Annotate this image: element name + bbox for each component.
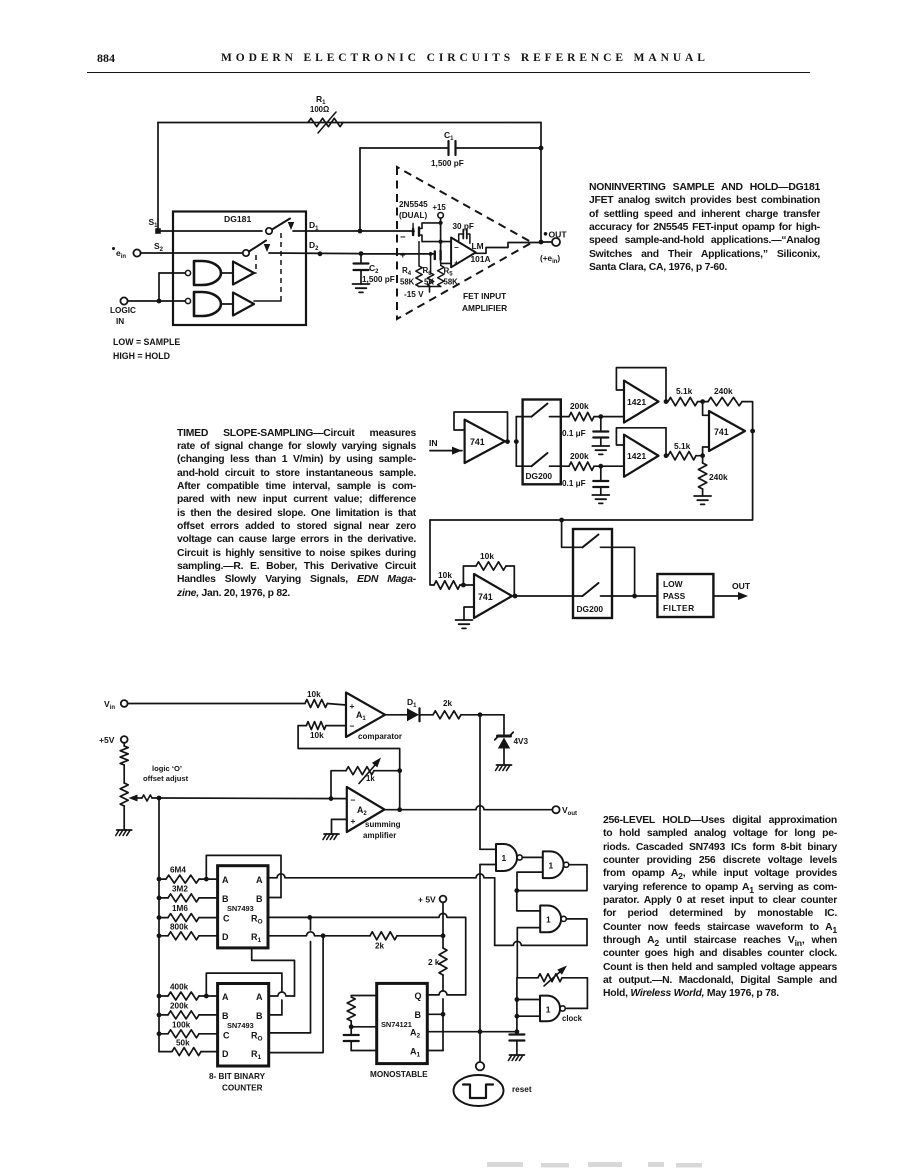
counter ladder rung 400k	[157, 994, 162, 999]
svg-text:PASS: PASS	[663, 591, 686, 601]
switch SW1 pivot	[266, 228, 272, 234]
op-amp 741 buffer U1	[465, 420, 505, 463]
svg-text:A: A	[256, 992, 263, 1002]
ground zener	[497, 764, 512, 766]
wire C1 left drop to D1	[359, 148, 361, 231]
ground A2 plus	[324, 833, 339, 835]
svg-text:1421: 1421	[627, 397, 646, 407]
transistor Q1 2N5545 top FET	[412, 231, 414, 233]
node U1 output dots	[505, 439, 510, 444]
ground osc	[509, 1054, 524, 1056]
pot wiper arrow	[129, 795, 138, 802]
svg-text:(+ein): (+ein)	[540, 254, 560, 265]
wire mono A2 line	[427, 1031, 517, 1033]
svg-text:LM: LM	[472, 241, 484, 251]
svg-text:DG181: DG181	[224, 214, 251, 224]
reset pulse symbol	[463, 1085, 493, 1099]
svg-text:100Ω: 100Ω	[310, 105, 329, 114]
node D2 dot	[318, 251, 323, 256]
switch SW2 blade	[249, 241, 266, 252]
resistor 2k horizontal	[433, 711, 461, 719]
op-amp 741 U3	[474, 574, 512, 618]
counter ladder rung 200k	[157, 1013, 162, 1018]
wire N2 out loop	[517, 865, 587, 891]
svg-text:+5V: +5V	[99, 735, 115, 745]
wire feedback to output	[506, 566, 514, 596]
NAND gate G1 input bubble	[185, 270, 190, 275]
wire C2 to ground	[360, 270, 362, 284]
wire Q line	[427, 991, 465, 995]
wire -15 rail	[418, 286, 440, 288]
svg-text:LOW: LOW	[663, 579, 683, 589]
control dashed line SW2	[255, 255, 257, 271]
wire QA to rail	[267, 874, 494, 878]
wire A1 minus loop to A2 out	[298, 726, 400, 771]
wire S2 line into box	[141, 252, 242, 254]
resistor 10k A1 feedback	[306, 722, 326, 730]
svg-text:comparator: comparator	[358, 732, 402, 741]
wire OUT arrow middle	[714, 595, 746, 597]
terminal +5V left	[121, 736, 128, 743]
node C1 right dot	[539, 146, 544, 151]
svg-text:1,500 pF: 1,500 pF	[362, 275, 395, 284]
label e_in	[112, 247, 115, 250]
terminal reset circle	[476, 1062, 484, 1070]
resistor R6	[430, 254, 432, 273]
svg-text:+: +	[454, 259, 459, 268]
NAND gate G2 input bubble	[185, 298, 190, 303]
terminal OUT	[552, 238, 560, 246]
svg-text:5K: 5K	[424, 278, 434, 287]
svg-text:OUT: OUT	[549, 230, 568, 240]
svg-text:−: −	[351, 795, 356, 805]
svg-text:101A: 101A	[471, 254, 491, 264]
wire 1421 lower feedback	[616, 428, 666, 456]
wire B to A1 tie	[442, 1014, 444, 1050]
wire R0 line counter1	[268, 913, 466, 917]
node diff in upper	[700, 399, 705, 404]
wiper squiggle	[142, 795, 152, 801]
wire comparator vertical upper	[479, 715, 481, 850]
node U2 out	[750, 429, 755, 434]
op-amp A2	[347, 787, 385, 832]
terminal e_in	[133, 249, 140, 256]
node slope rail dot	[559, 518, 564, 523]
wire gate1 in2 to reset vertical	[480, 864, 496, 866]
node B tie	[441, 1012, 446, 1017]
IC DG200 box 2	[573, 529, 612, 618]
terminal Vout	[552, 806, 559, 813]
IC DG200 box 1	[523, 400, 561, 485]
wire U1 feedback loop	[454, 412, 508, 442]
wire U1 out branch vertical	[515, 417, 517, 467]
op-amp LM101A	[451, 238, 476, 268]
svg-text:6M4: 6M4	[170, 866, 186, 875]
svg-text:50k: 50k	[176, 1039, 190, 1048]
1k pot arrow	[372, 758, 381, 768]
svg-text:+: +	[350, 701, 355, 711]
switch SW1 arrowhead	[288, 222, 295, 230]
svg-text:1421: 1421	[627, 451, 646, 461]
node OUT dot	[539, 240, 544, 245]
svg-text:B: B	[256, 894, 263, 904]
svg-text:C: C	[223, 914, 230, 924]
wire left drop to 10k	[430, 520, 434, 585]
svg-text:A2: A2	[410, 1028, 421, 1040]
wire rail to DG200-2 top switch	[562, 520, 573, 547]
svg-text:A: A	[222, 992, 229, 1002]
svg-text:10k: 10k	[307, 690, 321, 699]
resistor 240k upper	[708, 397, 742, 405]
svg-text:A1: A1	[410, 1047, 421, 1059]
wire R1 line counter1	[268, 932, 370, 936]
NAND gate N1	[496, 844, 517, 871]
resistor R4	[418, 242, 420, 266]
node cap2 dot	[598, 464, 603, 469]
op-amp dashed triangle FET amplifier	[397, 167, 532, 319]
svg-text:-15 V: -15 V	[404, 290, 424, 299]
node 1421 upper out	[664, 399, 669, 404]
terminal +15	[438, 213, 444, 219]
op-amp 741 difference U2	[709, 411, 745, 451]
svg-text:R1: R1	[251, 1049, 262, 1061]
IC SN7493 upper box	[218, 866, 268, 948]
wire N2 in2 leg	[517, 872, 543, 891]
capacitor C2 wire	[360, 254, 362, 263]
svg-text:2N5545: 2N5545	[399, 200, 428, 209]
resistor 5.1k upper	[668, 397, 698, 405]
svg-text:SN7493: SN7493	[227, 1021, 254, 1030]
svg-text:R1: R1	[251, 932, 262, 944]
capacitor 0.1uF bottom	[600, 466, 602, 480]
svg-text:DG200: DG200	[577, 604, 604, 614]
svg-text:2 k: 2 k	[428, 958, 440, 967]
IC SN74121 monostable box	[377, 983, 428, 1063]
wire +15 vertical to drains	[440, 218, 442, 251]
counter ladder rung 50k	[159, 1051, 172, 1053]
svg-text:summing: summing	[365, 820, 401, 829]
control dashed line SW1	[280, 233, 282, 301]
NAND gate N4 clock	[540, 996, 560, 1022]
counter ladder rung 800k	[157, 933, 162, 938]
capacitor 30pF feedback	[459, 234, 463, 241]
svg-text:S1: S1	[149, 217, 159, 229]
switch DG200a bottom	[523, 465, 532, 467]
IC switch DG181 box	[173, 212, 306, 326]
svg-text:S2: S2	[154, 241, 164, 253]
svg-text:A: A	[222, 875, 229, 885]
wire A2 out to Vout	[384, 806, 552, 810]
svg-text:reset: reset	[512, 1085, 532, 1094]
wire R0 to Q loop right	[465, 917, 467, 995]
svg-text:amplifier: amplifier	[363, 831, 396, 840]
node monostable A2 tie	[478, 1029, 483, 1034]
svg-text:800k: 800k	[170, 923, 189, 932]
ground 0.1uF bottom	[592, 494, 609, 496]
switch SW2 arrowhead	[264, 244, 271, 252]
svg-text:2k: 2k	[375, 942, 385, 951]
svg-text:10k: 10k	[480, 551, 494, 561]
node 1421 lower out	[664, 453, 669, 458]
wire logic in to gates	[128, 300, 185, 302]
resistor offset pot upper	[123, 743, 125, 746]
resistor 10k A1 top	[305, 700, 327, 708]
resistor 240k lower vertical	[702, 456, 704, 463]
node LPF in dot	[632, 594, 637, 599]
svg-text:offset adjust: offset adjust	[143, 774, 189, 783]
op-amp 1421 upper	[624, 381, 659, 423]
svg-text:OUT: OUT	[732, 581, 751, 591]
node comparator out	[478, 712, 483, 717]
wire 240k to out node	[742, 402, 753, 431]
svg-text:10k: 10k	[310, 731, 324, 740]
svg-text:0.1 μF: 0.1 μF	[562, 429, 586, 438]
terminal Vin	[121, 700, 128, 707]
wire R1 to counter2 R1	[269, 936, 323, 1053]
svg-text:741: 741	[470, 437, 485, 447]
svg-text:58K: 58K	[444, 278, 459, 287]
svg-text:200k: 200k	[570, 451, 589, 461]
wire 10k feedback loop	[463, 566, 476, 585]
capacitor C2	[354, 262, 369, 264]
node pot left	[329, 796, 334, 801]
wire N3 in2 leg	[517, 928, 540, 978]
node 10k tee	[461, 583, 466, 588]
svg-text:240k: 240k	[709, 472, 728, 482]
svg-text:LOGIC: LOGIC	[110, 306, 136, 315]
svg-text:30 pF: 30 pF	[453, 222, 474, 231]
wire diff inputs	[703, 402, 709, 416]
wire N3 out loop	[567, 919, 587, 946]
svg-text:B: B	[256, 1011, 263, 1021]
wire counter2 QA loop	[204, 994, 209, 999]
svg-text:4V3: 4V3	[514, 737, 529, 746]
svg-text:D: D	[222, 932, 229, 942]
svg-text:58K: 58K	[400, 278, 415, 287]
svg-text:B: B	[415, 1010, 422, 1020]
resistor 10k input	[434, 581, 460, 589]
wire to OUT terminal	[541, 241, 552, 243]
IC SN7493 lower box	[218, 984, 269, 1067]
wire DG200b top out	[612, 547, 635, 596]
wire to gate1 in1	[480, 848, 496, 850]
svg-text:1: 1	[549, 861, 554, 871]
NAND gate G1 body	[194, 261, 221, 285]
node cap1 dot	[598, 414, 603, 419]
svg-text:clock: clock	[562, 1014, 583, 1023]
svg-text:D: D	[222, 1049, 229, 1059]
resistor 2k vertical	[439, 948, 447, 975]
ground 240k	[694, 495, 711, 497]
svg-text:AMPLIFIER: AMPLIFIER	[462, 303, 507, 313]
node RC junction	[349, 1024, 354, 1029]
svg-text:D1: D1	[407, 697, 417, 709]
wire Vin to 10k	[128, 703, 305, 705]
resistor R1	[308, 118, 343, 126]
capacitor 0.1uF top	[600, 417, 602, 431]
svg-text:5.1k: 5.1k	[676, 386, 693, 396]
node 1k right	[397, 768, 402, 773]
svg-text:0.1 μF: 0.1 μF	[562, 479, 586, 488]
resistor 200k bottom	[561, 465, 569, 467]
svg-text:C: C	[223, 1031, 230, 1041]
wire LM output to apex	[476, 243, 541, 254]
wire offset to A2 minus	[159, 797, 347, 800]
monostable RC cap	[350, 1027, 352, 1035]
op-amp 1421 lower	[624, 435, 659, 477]
svg-text:(DUAL): (DUAL)	[399, 211, 427, 220]
wire osc pot left	[517, 977, 538, 979]
svg-text:FET INPUT: FET INPUT	[463, 291, 507, 301]
svg-text:−: −	[350, 721, 355, 731]
svg-text:240k: 240k	[714, 386, 733, 396]
counter ladder rung 6M4	[157, 877, 162, 882]
svg-text:D2: D2	[309, 240, 319, 252]
svg-text:741: 741	[478, 592, 493, 602]
svg-text:RO: RO	[251, 1031, 263, 1043]
diode D1	[385, 714, 407, 716]
wire +5V vertical	[442, 902, 444, 935]
svg-text:+ 5V: + 5V	[418, 895, 436, 905]
svg-text:−: −	[454, 243, 459, 252]
capacitor osc	[509, 1033, 524, 1035]
ground 0.1uF top	[592, 445, 609, 447]
wire osc pot right	[562, 978, 587, 1009]
svg-text:Q: Q	[415, 991, 422, 1001]
svg-text:−: −	[400, 232, 406, 243]
op-amp A1	[346, 693, 385, 738]
svg-text:logic ‘O’: logic ‘O’	[152, 764, 182, 773]
buffer triangle G1	[233, 262, 254, 285]
terminal +5V right	[440, 896, 447, 903]
wire osc rail down	[516, 978, 518, 1034]
wire 1421 upper feedback	[616, 368, 666, 402]
monostable RC resistor	[351, 995, 377, 997]
buffer triangle G2	[233, 293, 254, 316]
wire N1 out to N2	[522, 856, 543, 858]
resistor 5.1k lower	[668, 452, 696, 460]
reset waveform ellipse	[454, 1075, 504, 1106]
counter ladder rung 1M6	[157, 915, 162, 920]
wire A2 plus ground leg	[332, 819, 347, 834]
wire R0 to counter2 R0	[309, 916, 312, 918]
svg-text:1M6: 1M6	[172, 904, 188, 913]
svg-text:HIGH = HOLD: HIGH = HOLD	[113, 351, 170, 361]
svg-text:SN74121: SN74121	[381, 1020, 412, 1029]
box LOW PASS FILTER	[657, 574, 713, 617]
svg-text:1: 1	[546, 915, 551, 925]
svg-text:1: 1	[502, 853, 507, 863]
wire latch to N3 in1	[517, 891, 540, 911]
wire N4 inputs	[517, 999, 540, 1001]
svg-text:SN7493: SN7493	[227, 904, 254, 913]
svg-text:A2: A2	[357, 805, 367, 817]
svg-text:200k: 200k	[570, 401, 589, 411]
svg-text:100k: 100k	[172, 1021, 191, 1030]
svg-text:IN: IN	[116, 317, 124, 326]
resistor 200k top	[561, 416, 569, 418]
switch SW1 blade	[272, 219, 290, 230]
wire U2 output down and across	[430, 431, 753, 520]
svg-text:RO: RO	[251, 914, 263, 926]
oscillator pot resistor	[538, 974, 562, 982]
svg-text:8- BIT BINARY: 8- BIT BINARY	[209, 1072, 266, 1081]
svg-text:B: B	[222, 894, 229, 904]
switch DG200b bottom	[573, 595, 583, 597]
node offset junction	[157, 796, 162, 801]
node A2 out	[397, 807, 402, 812]
wire U3 out to DG200-2	[515, 595, 573, 597]
resistor 10k feedback	[476, 562, 506, 570]
node D1 junction dot	[358, 229, 363, 234]
NAND gate N2	[543, 851, 564, 878]
svg-text:R4: R4	[402, 266, 412, 277]
svg-text:B: B	[222, 1011, 229, 1021]
svg-text:A1: A1	[356, 710, 366, 722]
wire: left vertical to S1	[157, 123, 159, 232]
svg-text:FILTER: FILTER	[663, 603, 695, 613]
svg-text:741: 741	[714, 427, 729, 437]
svg-text:+: +	[400, 250, 406, 261]
wire clockA under box	[252, 948, 295, 996]
counter ladder rung 100k	[157, 1031, 162, 1036]
switch DG200b top	[573, 546, 583, 548]
ground U3	[456, 619, 473, 621]
transistor Q2 2N5545 bottom FET	[361, 253, 434, 255]
svg-text:A: A	[256, 875, 263, 885]
NAND gate G2 body	[194, 292, 221, 316]
svg-text:R5: R5	[444, 267, 454, 278]
NAND gate N3	[540, 906, 561, 933]
resistor 2k R1 line	[370, 932, 397, 940]
svg-text:+: +	[351, 816, 356, 826]
page-bottom faint artifact	[487, 1162, 702, 1168]
svg-text:DG200: DG200	[526, 471, 553, 481]
svg-text:2k: 2k	[443, 699, 453, 708]
svg-text:10k: 10k	[438, 570, 452, 580]
wire S1-D1 line	[161, 230, 262, 232]
node S1 square	[155, 228, 161, 234]
wire to LPF	[612, 595, 657, 597]
counter ladder rung 3M2	[157, 896, 162, 901]
svg-text:C2: C2	[369, 263, 379, 275]
ground offset pot	[117, 829, 132, 831]
svg-text:+15: +15	[433, 203, 447, 212]
resistor offset pot lower	[120, 783, 128, 806]
svg-text:Vin: Vin	[104, 699, 115, 711]
wire U3 plus to ground	[464, 607, 474, 620]
zener 4V3	[498, 735, 511, 738]
svg-text:IN: IN	[429, 438, 438, 448]
terminal LOGIC IN	[120, 297, 127, 304]
wire counter2 A stub	[269, 992, 295, 996]
wire buffer G2 to dashed	[254, 300, 281, 302]
node U3 out	[513, 594, 518, 599]
svg-text:5.1k: 5.1k	[674, 441, 691, 451]
wire counter1 QA loop	[204, 877, 209, 882]
svg-text:Vout: Vout	[562, 805, 577, 817]
ground C2	[353, 283, 370, 285]
svg-text:1,500 pF: 1,500 pF	[431, 159, 464, 168]
label OUT	[544, 232, 548, 236]
wire B line	[427, 1013, 443, 1015]
wire ladder vertical	[158, 798, 160, 1052]
svg-text:ein: ein	[116, 248, 126, 260]
svg-text:3M2: 3M2	[172, 885, 188, 894]
node 240k lower tee	[700, 453, 705, 458]
switch SW2 pivot	[243, 250, 249, 256]
resistor 1k pot	[346, 767, 374, 775]
